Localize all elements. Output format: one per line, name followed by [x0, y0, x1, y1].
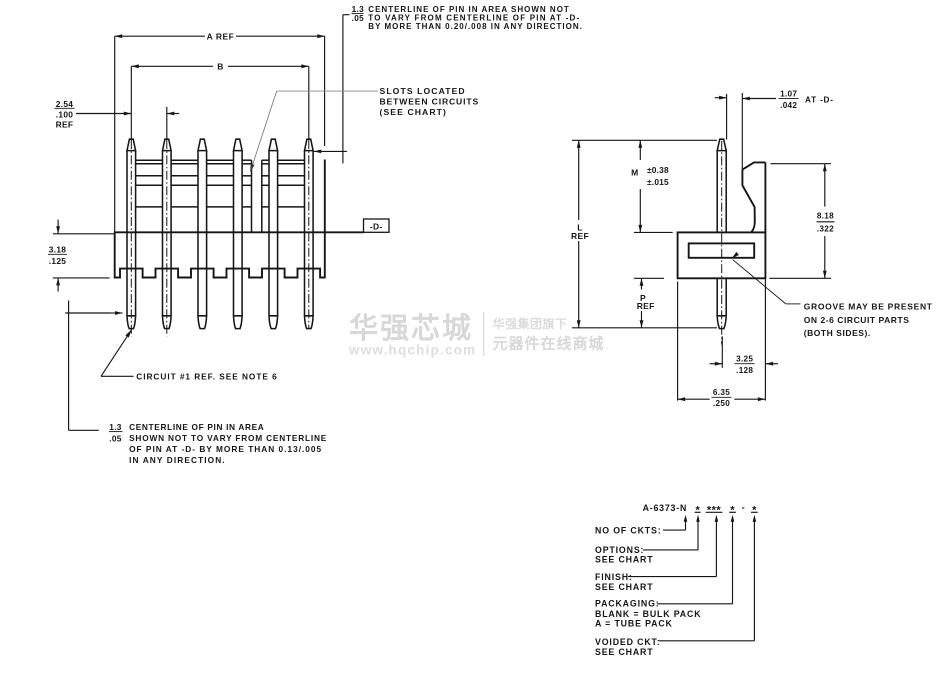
- svg-text:±0.38: ±0.38: [647, 165, 669, 175]
- svg-text:.05: .05: [109, 434, 122, 444]
- svg-text:A = TUBE PACK: A = TUBE PACK: [595, 618, 673, 628]
- svg-text:SHOWN NOT TO VARY FROM CENTERL: SHOWN NOT TO VARY FROM CENTERLINE: [129, 433, 327, 443]
- leader options: [595, 515, 700, 565]
- leader packaging: [595, 515, 734, 629]
- svg-text:-: -: [742, 501, 745, 512]
- watermark hqchip: [348, 312, 605, 358]
- svg-text:OF PIN AT -D- BY MORE THAN 0.1: OF PIN AT -D- BY MORE THAN 0.13/.005: [129, 444, 322, 454]
- front view pin 1: [127, 139, 136, 328]
- svg-text:FINISH:: FINISH:: [595, 572, 633, 582]
- svg-text:BY MORE THAN 0.20/.008 IN ANY: BY MORE THAN 0.20/.008 IN ANY DIRECTION.: [368, 22, 583, 31]
- svg-text:VOIDED CKT:: VOIDED CKT:: [595, 637, 661, 647]
- dimension 3.18/.125: [48, 220, 114, 292]
- dimension A REF: [115, 31, 325, 232]
- leader voided ckt: [595, 515, 756, 657]
- svg-text:REF: REF: [637, 301, 655, 311]
- note: circuit #1 ref: [101, 330, 278, 382]
- dimension 3.25/.128: [710, 336, 778, 374]
- svg-text:NO OF CKTS:: NO OF CKTS:: [595, 526, 662, 536]
- svg-text:SEE CHART: SEE CHART: [595, 582, 653, 592]
- svg-text:www.hqchip.com: www.hqchip.com: [348, 343, 476, 358]
- side view pin: [717, 139, 726, 328]
- svg-text:CIRCUIT #1 REF. SEE NOTE 6: CIRCUIT #1 REF. SEE NOTE 6: [136, 372, 277, 382]
- svg-text:***: ***: [707, 504, 722, 516]
- svg-text:6.35: 6.35: [713, 388, 730, 397]
- front view pin 5: [269, 139, 278, 328]
- svg-text:.042: .042: [780, 101, 797, 110]
- svg-text:3.18: 3.18: [49, 245, 67, 255]
- dimension 8.18/.322: [769, 164, 834, 279]
- front view pin 4: [234, 139, 243, 328]
- svg-text:1.07: 1.07: [780, 89, 797, 98]
- svg-text:PACKAGING:: PACKAGING:: [595, 599, 660, 609]
- svg-text:.322: .322: [817, 224, 834, 233]
- leader finish: [595, 515, 718, 592]
- svg-text:(BOTH SIDES).: (BOTH SIDES).: [804, 328, 871, 338]
- front view slot between circuits 4-5: [252, 160, 262, 232]
- svg-text:*: *: [730, 504, 735, 516]
- svg-text:SLOTS LOCATED: SLOTS LOCATED: [380, 86, 466, 96]
- svg-text:华强芯城: 华强芯城: [349, 312, 473, 345]
- svg-text:±.015: ±.015: [647, 177, 669, 187]
- dimension L REF: [571, 140, 589, 327]
- extension line housing bottom left: [634, 277, 664, 279]
- front view shroud right edge: [324, 160, 326, 233]
- side view shroud profile: [742, 162, 765, 232]
- note: slots located between circuits: [250, 86, 479, 172]
- front view housing outline: [115, 232, 325, 277]
- svg-text:REF: REF: [571, 231, 589, 241]
- front view housing top line / datum face: [115, 231, 364, 233]
- svg-text:ON 2-6 CIRCUIT PARTS: ON 2-6 CIRCUIT PARTS: [804, 315, 910, 325]
- front view pin 2: [163, 139, 172, 328]
- svg-text:1.3: 1.3: [109, 422, 122, 432]
- side view pin centerline: [721, 141, 723, 345]
- svg-text:8.18: 8.18: [817, 212, 834, 221]
- extension line housing top left: [634, 231, 673, 233]
- svg-text:-D-: -D-: [370, 221, 383, 231]
- svg-text:.05: .05: [352, 14, 364, 23]
- svg-text:IN ANY DIRECTION.: IN ANY DIRECTION.: [129, 455, 226, 465]
- dimension B: [131, 62, 308, 141]
- front view shroud wall lines: [136, 160, 305, 207]
- pin 2 centerline: [166, 140, 168, 337]
- svg-text:BETWEEN CIRCUITS: BETWEEN CIRCUITS: [380, 96, 480, 106]
- svg-text:.128: .128: [736, 366, 753, 375]
- dimension 1.07/.042 AT -D-: [715, 89, 834, 169]
- dimension P REF: [637, 278, 655, 328]
- svg-text:3.25: 3.25: [736, 355, 753, 364]
- side view housing body: [678, 232, 766, 278]
- note: groove may be present: [732, 252, 933, 338]
- front view pin 6: [305, 139, 314, 328]
- svg-text:2.54: 2.54: [56, 99, 74, 109]
- note bottom: centerline of pin tolerance 0.13/.005: [65, 301, 327, 466]
- svg-text:华强集团旗下: 华强集团旗下: [493, 316, 568, 331]
- side view groove: [689, 243, 755, 257]
- datum -D- flag: [364, 219, 390, 232]
- pin 1 centerline: [130, 140, 132, 337]
- svg-text:B: B: [217, 62, 223, 72]
- note top: centerline of pin tolerance 0.20/.008: [314, 5, 583, 164]
- svg-text:SEE CHART: SEE CHART: [595, 555, 653, 565]
- svg-text:.250: .250: [713, 399, 730, 408]
- part number A-6373-N: [643, 501, 758, 516]
- svg-text:SEE CHART: SEE CHART: [595, 647, 653, 657]
- svg-text:AT -D-: AT -D-: [805, 95, 834, 104]
- front view pin 3: [198, 139, 207, 328]
- svg-text:OPTIONS:: OPTIONS:: [595, 545, 644, 555]
- svg-text:.100: .100: [56, 110, 74, 120]
- svg-text:1.3: 1.3: [352, 5, 364, 14]
- svg-text:*: *: [752, 504, 757, 516]
- dimension 6.35/.250: [678, 278, 766, 408]
- leader no of ckts: [595, 515, 687, 536]
- dimension M ±0.38/±.015: [631, 140, 669, 232]
- svg-text:*: *: [696, 504, 701, 516]
- svg-text:A REF: A REF: [207, 31, 235, 41]
- svg-text:.125: .125: [49, 256, 67, 266]
- svg-text:M: M: [631, 168, 638, 178]
- svg-text:REF: REF: [56, 119, 74, 129]
- svg-text:元器件在线商城: 元器件在线商城: [493, 335, 605, 353]
- svg-text:CENTERLINE OF PIN IN AREA: CENTERLINE OF PIN IN AREA: [129, 422, 264, 432]
- svg-text:(SEE CHART): (SEE CHART): [380, 107, 447, 117]
- pin 6 centerline: [308, 140, 310, 328]
- svg-text:GROOVE MAY BE PRESENT: GROOVE MAY BE PRESENT: [804, 302, 933, 312]
- extension line pin bottom: [572, 327, 717, 329]
- svg-text:A-6373-N: A-6373-N: [643, 503, 688, 513]
- extension line pin top: [572, 139, 717, 141]
- dimension 2.54/.100 REF: [55, 99, 180, 140]
